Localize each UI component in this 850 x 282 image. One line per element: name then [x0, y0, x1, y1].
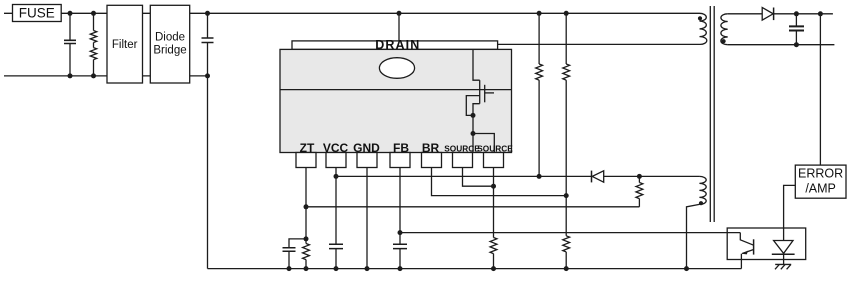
node ZT tap — [304, 204, 309, 209]
node J7 drain tap — [397, 11, 402, 16]
wire output top — [774, 13, 833, 15]
wire aux to ground — [687, 204, 700, 268]
node rail-r5 — [537, 11, 542, 16]
node J2 — [91, 11, 96, 16]
wire BR pin — [432, 168, 567, 196]
transistor Q1 drain lead — [473, 49, 480, 80]
IC U1 body — [280, 49, 512, 152]
node g8 — [684, 266, 689, 271]
pin box GND — [357, 153, 377, 168]
resistor R5 — [536, 13, 543, 176]
resistor R discharge — [90, 13, 96, 76]
svg-text:ERROR: ERROR — [798, 167, 843, 181]
node g3 — [334, 266, 339, 271]
wire FB horizontal — [400, 232, 740, 234]
wire AC line top — [4, 12, 107, 14]
polarity dot aux — [699, 201, 703, 205]
IC U1 internal line — [280, 89, 512, 91]
opto LED bar — [772, 253, 795, 255]
node source A — [471, 113, 476, 118]
opto transistor base bar — [753, 239, 755, 254]
transistor Q1 gate loop — [466, 96, 479, 116]
opto LED triangle — [774, 241, 793, 254]
wire SOURCE1 pin — [463, 168, 494, 187]
IC U1 ellipse — [379, 58, 414, 79]
node aux-r9 — [637, 174, 642, 179]
node out2 — [818, 11, 823, 16]
node VCC tap — [334, 174, 339, 179]
wire negative rail drop — [207, 76, 209, 269]
opto emitter arrow — [741, 251, 748, 255]
node g7 — [564, 266, 569, 271]
svg-text:Diode: Diode — [155, 32, 185, 44]
node J3 — [68, 73, 73, 78]
pin box FB — [390, 153, 410, 168]
wire filter to bridge — [143, 13, 151, 76]
transformer T1 secondary — [721, 14, 728, 45]
wire GND pin down — [366, 168, 368, 269]
transistor Q1 gate tick — [485, 92, 494, 94]
diode D aux — [592, 171, 604, 183]
wire secondary to diode — [728, 13, 762, 15]
wire diode to aux — [604, 175, 700, 177]
resistor R zt — [303, 239, 310, 269]
wire to pin SOURCE1 — [472, 134, 474, 153]
diode bridge block — [150, 5, 189, 83]
node rail-r6 — [564, 11, 569, 16]
wire ground rail — [208, 268, 742, 270]
svg-text:/AMP: /AMP — [805, 181, 836, 195]
wire sense down — [819, 14, 821, 165]
IC U1 drain tab — [292, 38, 498, 52]
polarity dot primary — [698, 16, 702, 20]
wire LED to ground — [783, 254, 785, 264]
node g2 — [304, 266, 309, 271]
wire VCC pin down — [335, 168, 337, 245]
wire source down — [472, 115, 474, 133]
node g6 — [491, 266, 496, 271]
polarity dot secondary — [722, 39, 726, 43]
pin box SOURCE1 — [453, 153, 473, 168]
capacitor CX1 — [64, 13, 76, 76]
wire ZT horizontal — [306, 206, 639, 208]
wire drain stub — [398, 13, 400, 41]
node J6 — [205, 73, 210, 78]
filter block — [107, 5, 143, 83]
error amp block — [795, 165, 846, 198]
transistor Q1 channel bar — [479, 80, 481, 104]
node g5 — [398, 266, 403, 271]
node out1 — [794, 11, 799, 16]
opto transistor emitter — [742, 250, 753, 254]
fuse F1 — [13, 5, 62, 22]
wire VCC horizontal — [336, 175, 539, 177]
node J4 — [91, 73, 96, 78]
wire error amp to led — [784, 185, 796, 240]
wire HV rail — [208, 12, 700, 14]
node J1 — [68, 11, 73, 16]
pin box VCC — [326, 153, 346, 168]
capacitor C out — [789, 14, 804, 45]
diode D out — [762, 8, 773, 21]
pin box ZT — [296, 153, 316, 168]
transformer T1 primary — [700, 13, 707, 44]
wire emitter down — [740, 254, 742, 269]
svg-text:Filter: Filter — [112, 39, 138, 51]
capacitor C bulk — [202, 13, 214, 76]
optocoupler U2 box — [727, 228, 806, 260]
wire to pin SOURCE2 — [473, 134, 494, 153]
resistor R7 — [563, 236, 570, 269]
pin box BR — [422, 153, 442, 168]
node br-r6 — [564, 193, 569, 198]
resistor R9 — [636, 176, 643, 206]
svg-text:Bridge: Bridge — [153, 45, 186, 57]
pin box SOURCE2 — [484, 153, 504, 168]
capacitor C fb — [393, 244, 407, 268]
wire bridge output bottom — [190, 75, 208, 77]
node FB tap — [398, 230, 403, 235]
resistor R source — [490, 238, 497, 269]
capacitor C vcc — [329, 244, 343, 268]
node g4 — [365, 266, 370, 271]
transistor Q1 gate bar — [484, 85, 486, 103]
wire vcc to diode — [539, 175, 591, 177]
ground symbol — [775, 264, 791, 269]
wire bridge output top — [190, 12, 208, 14]
resistor R6 — [563, 13, 570, 236]
transistor Q1 source step — [473, 104, 480, 116]
node ZT RC — [304, 236, 309, 241]
node g1 — [287, 266, 292, 271]
transformer T1 aux — [699, 176, 706, 204]
node vcc-r5 — [537, 174, 542, 179]
wire FB pin down — [399, 168, 401, 245]
capacitor C zt — [283, 239, 307, 269]
wire AC line bottom — [4, 75, 107, 77]
svg-text:FUSE: FUSE — [19, 5, 55, 20]
wire output bottom — [728, 44, 835, 46]
node source join — [491, 184, 496, 189]
wire ZT pin down — [305, 168, 307, 239]
opto transistor collector — [740, 233, 753, 246]
transformer core — [710, 6, 714, 222]
node source B — [471, 131, 476, 136]
wire drain to primary — [498, 43, 700, 45]
wire SOURCE2 pin down — [493, 168, 495, 238]
node out3 — [794, 42, 799, 47]
node J5 — [205, 11, 210, 16]
